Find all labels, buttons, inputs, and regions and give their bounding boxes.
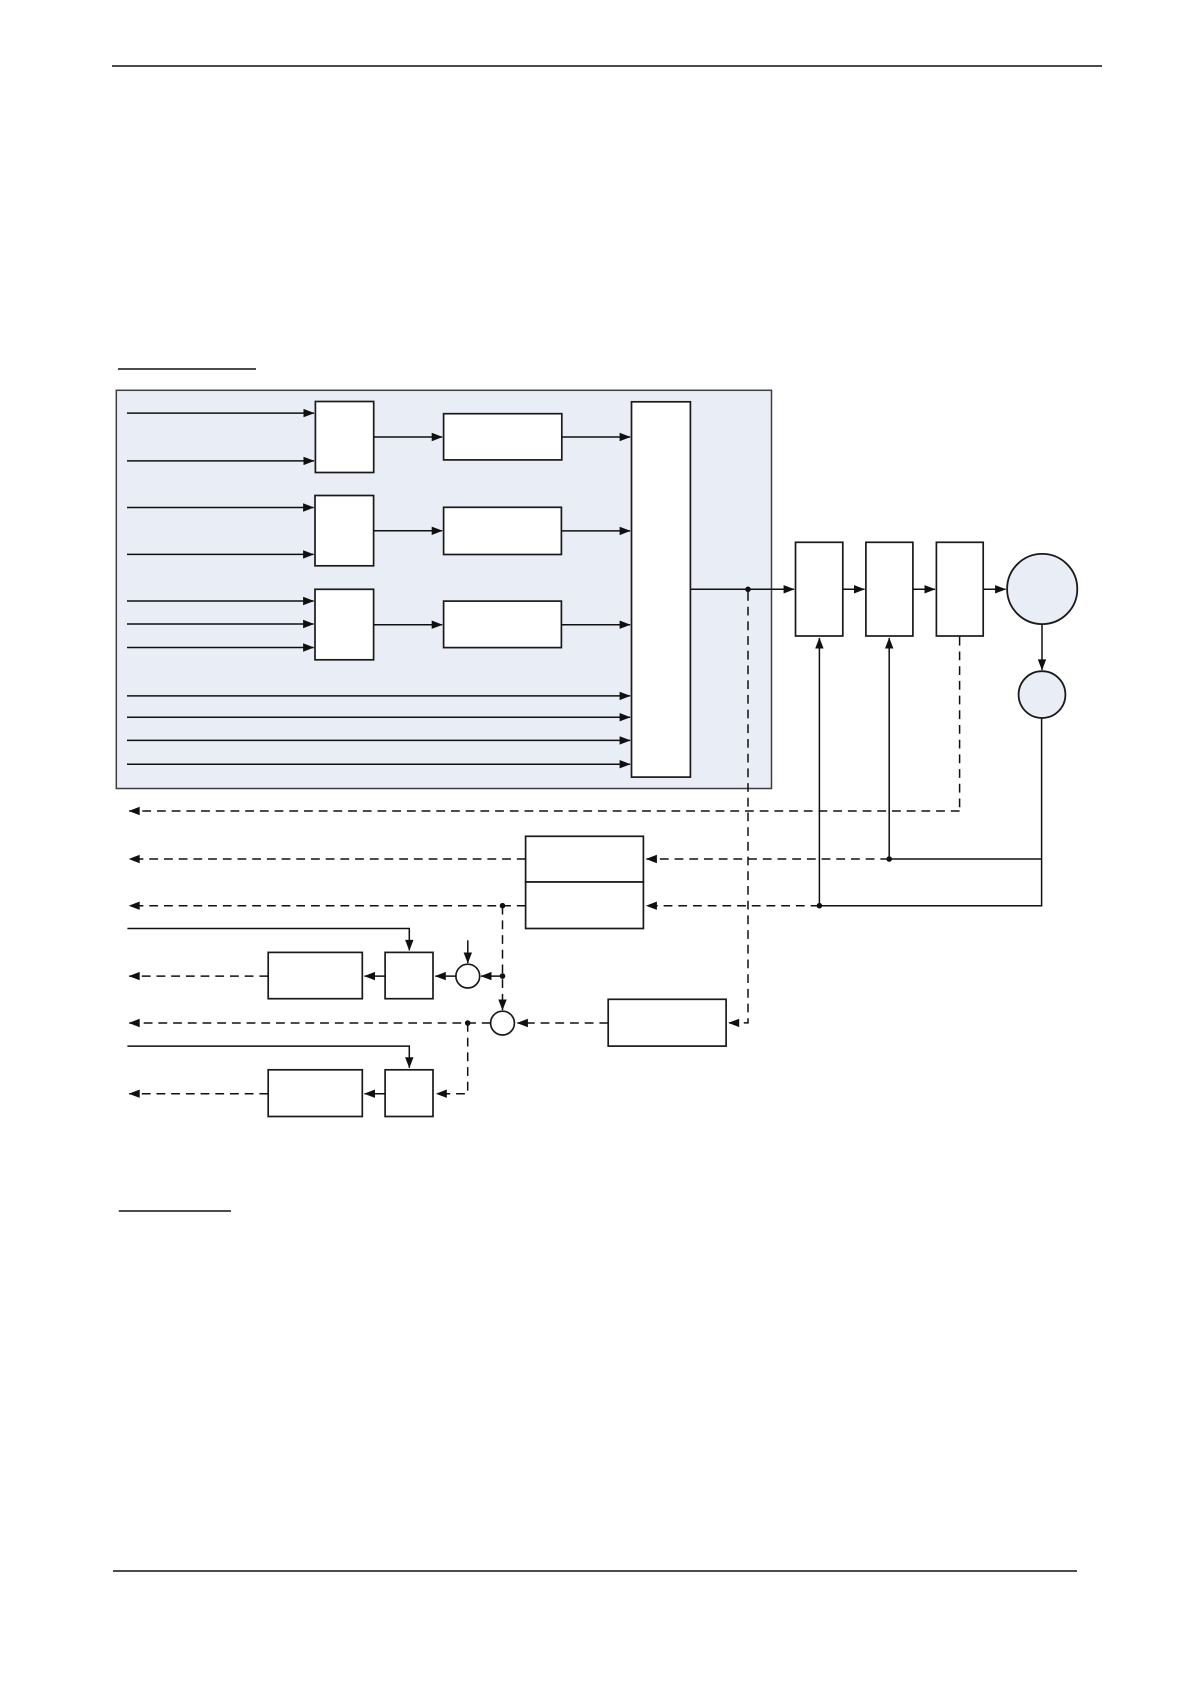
small box E2 [385, 1070, 433, 1117]
dashed wire down to circle 2 [502, 906, 504, 1010]
circle summer 1 [456, 964, 480, 988]
input wire 5 to S3 [127, 600, 314, 602]
long input wire 4 to T [127, 763, 630, 765]
wire S1 to W1 [374, 436, 443, 438]
box F [608, 999, 726, 1046]
dashed wire row 4 left to margin [129, 1022, 490, 1024]
main output wire T to A [690, 588, 794, 590]
wire big circle to small circle [1041, 624, 1043, 670]
dashed wire down into E2 [436, 1023, 467, 1094]
input wire 7 to S3 [127, 647, 314, 649]
wire circle 1 to E [435, 975, 456, 977]
wire A to B [843, 588, 865, 590]
input wire 3 to S2 [127, 507, 314, 509]
node dot at B feed [886, 856, 892, 862]
wire E to D [365, 975, 386, 977]
input wire 2 to S1 [127, 460, 314, 462]
shaded container block [116, 390, 771, 788]
stub arrow into circle 1 [467, 940, 469, 963]
circle summer 2 [491, 1011, 515, 1035]
input stage box S2 [315, 496, 374, 566]
wire W1 to T [562, 436, 630, 438]
input stage box S1 [315, 402, 373, 473]
wire S2 to W2 [374, 530, 443, 532]
dashed wire F to circle 2 [517, 1022, 608, 1024]
selector tall box T [632, 402, 691, 777]
node dot at A feed [817, 903, 823, 909]
solid input wire row 3 into E [127, 929, 409, 951]
node dot right of circle 1 [500, 973, 506, 979]
dashed wire row 1 left to margin [129, 858, 525, 860]
register box A [796, 542, 843, 636]
node dot row 4 [465, 1020, 471, 1026]
input wire 4 to S2 [127, 553, 314, 555]
long input wire 1 to T [127, 695, 630, 697]
dashed wire row 2 right into double box [646, 905, 819, 907]
dashed wire row 1 right into double box [646, 858, 889, 860]
register box C [936, 542, 983, 636]
solid input wire row 5 into E2 [127, 1046, 409, 1068]
input stage box S3 [315, 589, 374, 660]
node dot on main output [745, 587, 751, 593]
small circle [1019, 671, 1066, 718]
header rule [112, 65, 1102, 67]
long input wire 2 to T [127, 716, 630, 718]
dashed wire from C down [959, 637, 961, 811]
dashed wire from main node down to F [729, 592, 748, 1023]
filter box W3 [444, 601, 562, 648]
capture register double box bottom [526, 882, 644, 929]
long input wire 3 to T [127, 739, 630, 741]
dashed wire row 3 left to margin [129, 975, 268, 977]
dashed wire row 6 left to margin [129, 1093, 268, 1095]
filter box W2 [444, 507, 562, 554]
input wire 1 to S1 [127, 412, 314, 414]
section heading underline 2 [119, 1210, 231, 1212]
dashed wire row 2 left to margin [129, 905, 525, 907]
wire W3 to T [561, 624, 630, 626]
wire S3 to W3 [374, 624, 443, 626]
footer rule [113, 1570, 1077, 1572]
wire up into A [818, 638, 820, 906]
wire from small circle down and left [819, 718, 1041, 906]
wire E2 to D2 [365, 1093, 386, 1095]
filter box W1 [444, 414, 562, 460]
big circle [1007, 554, 1077, 624]
small box E [385, 952, 433, 998]
wire W2 to T [561, 530, 630, 532]
input wire 6 to S3 [127, 623, 314, 625]
prescaler box D2 [268, 1070, 362, 1117]
wire branch to B feed [889, 858, 1041, 860]
capture register double box top [526, 836, 644, 882]
wire node to circle 1 [481, 975, 503, 977]
wire up into B [888, 638, 890, 859]
register box B [866, 542, 913, 636]
node dot row 2 [500, 903, 506, 909]
wire C to big circle [983, 588, 1005, 590]
section heading underline (figure title) [118, 368, 256, 370]
wire B to C [913, 588, 935, 590]
dashed feedback wire row 0 [129, 810, 959, 812]
prescaler box D [268, 952, 362, 998]
